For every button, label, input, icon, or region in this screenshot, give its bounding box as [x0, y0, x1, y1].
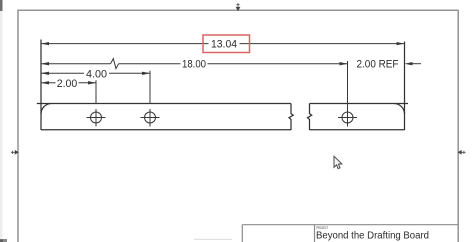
mouse cursor [334, 156, 342, 168]
svg-text:18.00: 18.00 [182, 59, 206, 71]
dimension 18.00 line with break [41, 59, 348, 69]
sheet border left [17, 10, 19, 242]
dimension 18.00 arrows [41, 62, 348, 65]
hole 2 [141, 109, 160, 127]
hole 3 [338, 109, 357, 127]
part left bar left edge + extension line [40, 40, 42, 131]
part right bar bottom edge [310, 129, 405, 131]
dimension 2.00 arrows [41, 81, 96, 84]
part right bar break edge [308, 104, 312, 131]
svg-text:2.00: 2.00 [57, 78, 78, 90]
title block top line [242, 224, 458, 226]
svg-text:Beyond the Drafting Board: Beyond the Drafting Board [316, 231, 429, 242]
sheet border right [457, 10, 459, 242]
part left bar bottom edge [41, 129, 291, 131]
svg-text:13.04: 13.04 [211, 39, 237, 51]
part right bar top edge [310, 103, 409, 105]
faint line left of title block [194, 238, 232, 240]
highlight red box [203, 35, 250, 53]
app corner block top-left [0, 0, 3, 11]
hole 1 [87, 109, 106, 127]
part left bar fillet arc [41, 104, 52, 115]
sheet border top [17, 9, 458, 11]
extension line hole 3 [347, 61, 349, 110]
centering mark left [11, 151, 18, 154]
app scrollbar corner bottom-left [0, 239, 7, 242]
part right bar right edge + extension line [404, 42, 406, 131]
dimension 13.04 arrows [41, 42, 405, 45]
title block divider vertical [314, 225, 316, 242]
centering mark top [236, 3, 239, 10]
dimension 2.00 line [41, 82, 96, 84]
dimension 4.00 line [41, 72, 150, 74]
dimension 2.00 REF outside arrow [412, 63, 421, 65]
title block left vertical [241, 225, 243, 242]
part left bar break edge [289, 104, 293, 131]
part right bar fillet arc [394, 104, 405, 115]
extension line hole 2 [149, 71, 151, 104]
part left bar top edge [37, 103, 291, 105]
svg-text:4.00: 4.00 [86, 68, 107, 80]
dimension 13.04 line [41, 43, 405, 45]
extension line hole 1 [95, 80, 97, 104]
dimension 4.00 arrows [41, 72, 150, 75]
centering mark right [458, 151, 465, 154]
svg-text:PROJECT: PROJECT [317, 226, 329, 230]
app edge strip left [0, 0, 3, 242]
svg-text:2.00 REF: 2.00 REF [357, 59, 399, 71]
